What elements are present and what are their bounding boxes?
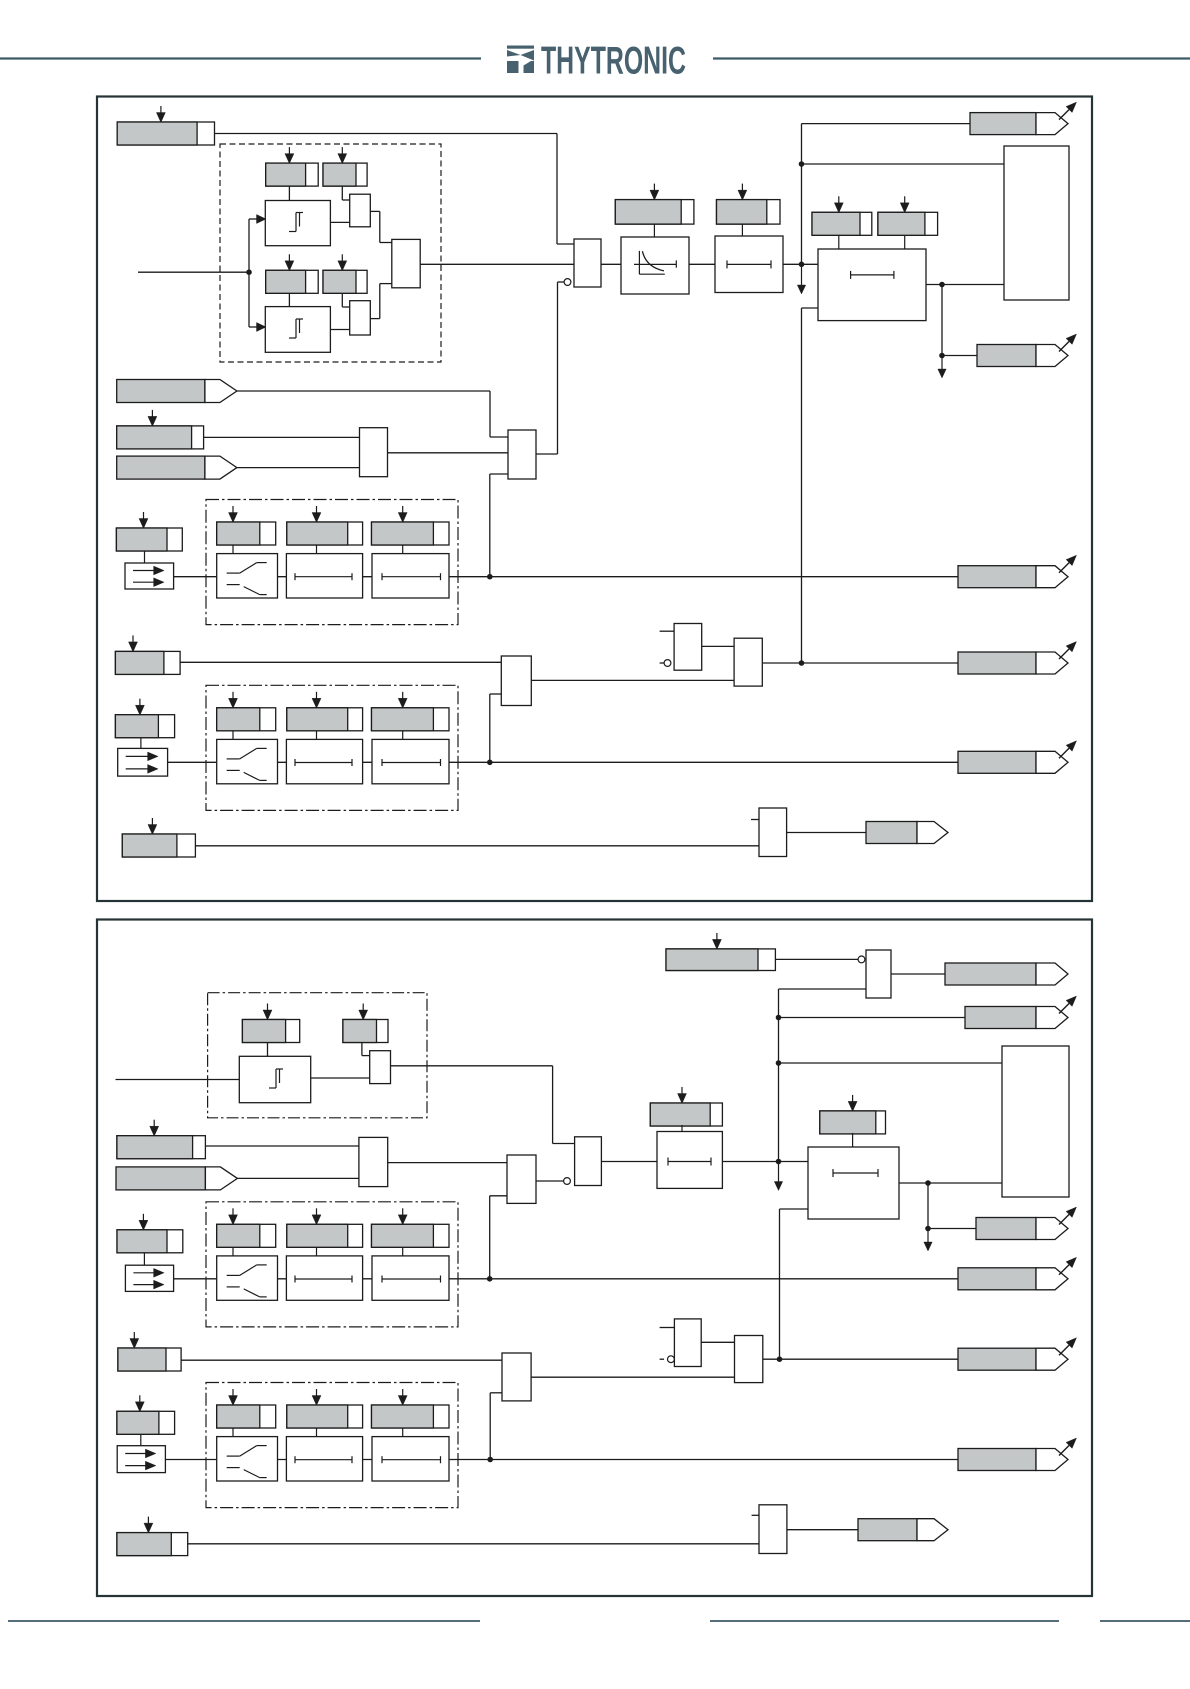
svg-text:THYTRONIC: THYTRONIC <box>541 40 686 83</box>
